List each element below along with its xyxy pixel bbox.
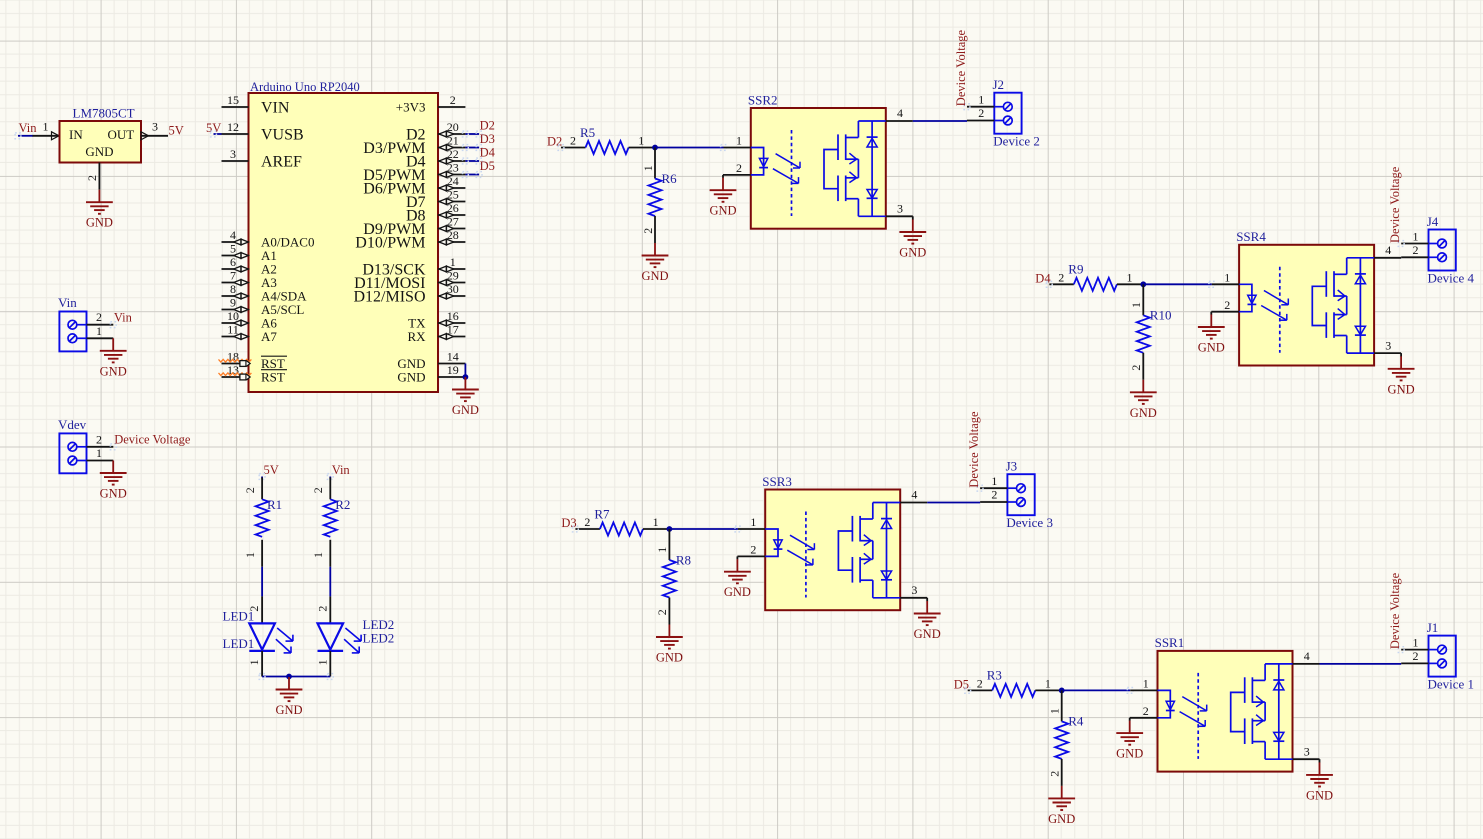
svg-text:GND: GND	[656, 651, 683, 665]
pin 2 of R1	[243, 478, 262, 500]
isolation dashed line inside SSR3	[805, 512, 807, 598]
svg-text:R6: R6	[662, 171, 678, 186]
resistor R7	[600, 523, 643, 536]
pin 4 (A0/DAC0) of U1	[222, 228, 315, 250]
pin 1 of J4	[1398, 229, 1428, 246]
ground	[1048, 786, 1075, 826]
pin 9 (A5/SCL) of U1	[222, 295, 305, 317]
svg-text:2: 2	[641, 228, 655, 234]
svg-text:2: 2	[584, 515, 590, 529]
svg-text:2: 2	[85, 175, 99, 181]
svg-text:5V: 5V	[169, 124, 184, 138]
isolation dashed line inside SSR1	[1197, 673, 1199, 759]
svg-text:4: 4	[897, 106, 903, 120]
pin 2 of J1	[1401, 649, 1428, 663]
wire	[463, 172, 483, 178]
pin 1 of R6	[641, 148, 655, 179]
pin 2 of LED2	[315, 596, 330, 623]
MOSFET pair inside SSR2	[824, 121, 886, 216]
svg-text:1: 1	[450, 255, 456, 269]
svg-text:2: 2	[977, 677, 983, 691]
pin 7 (A3) of U1	[222, 268, 277, 290]
ground	[641, 243, 668, 283]
svg-text:AREF: AREF	[261, 154, 302, 171]
svg-text:D3: D3	[561, 516, 576, 530]
pin 3 of SSR1	[1293, 744, 1320, 759]
svg-text:Vin: Vin	[114, 311, 133, 325]
svg-text:5: 5	[230, 241, 236, 255]
pin 2 of R2	[311, 478, 330, 500]
svg-text:SSR1: SSR1	[1155, 635, 1185, 650]
svg-text:R9: R9	[1068, 262, 1083, 277]
svg-text:GND: GND	[1116, 747, 1143, 761]
wire	[912, 216, 914, 219]
svg-text:J1: J1	[1427, 620, 1439, 635]
wire	[259, 474, 265, 480]
solid state relay SSR1 body	[1158, 651, 1293, 772]
pin 1 of Vdev connector	[87, 446, 114, 461]
svg-text:GND: GND	[1198, 341, 1225, 355]
pin 1 of SSR2	[724, 134, 751, 148]
svg-text:1: 1	[1129, 302, 1143, 308]
MOSFET pair inside SSR1	[1231, 664, 1293, 759]
MOSFET pair inside SSR4	[1312, 258, 1374, 353]
wire	[1046, 281, 1214, 287]
svg-text:R4: R4	[1068, 714, 1084, 729]
pin 1 of R8	[655, 529, 669, 560]
pin 1 of R9	[1117, 271, 1143, 285]
svg-text:5V: 5V	[206, 121, 221, 135]
svg-text:Device Voltage: Device Voltage	[954, 29, 968, 106]
wire	[913, 120, 967, 122]
light arrows inside SSR3	[787, 535, 814, 565]
pin 30 (D12/MISO) of U1	[353, 282, 465, 306]
svg-text:1: 1	[96, 446, 102, 460]
pin 6 (A2) of U1	[222, 255, 277, 277]
pin 2 of U2 (GND)	[85, 163, 99, 190]
svg-text:1: 1	[638, 134, 644, 148]
light arrows inside SSR4	[1261, 291, 1288, 321]
pin 1 of U2 (IN)	[33, 119, 60, 140]
wire	[1129, 718, 1131, 721]
svg-text:D2: D2	[480, 119, 495, 133]
wire	[463, 131, 483, 137]
svg-text:1: 1	[736, 134, 742, 148]
svg-text:Vin: Vin	[332, 463, 351, 477]
svg-text:D10/PWM: D10/PWM	[355, 235, 425, 252]
pin 19 (GND) of U1	[397, 363, 465, 385]
pin 29 (D11/MOSI) of U1	[354, 268, 465, 292]
svg-text:2: 2	[750, 543, 756, 557]
svg-text:12: 12	[227, 120, 239, 134]
pin 18 (RST) of U1	[219, 349, 288, 371]
connector Vin body	[59, 312, 86, 352]
wire	[1400, 353, 1402, 356]
svg-text:2: 2	[570, 134, 576, 148]
wire	[463, 145, 483, 151]
svg-text:15: 15	[227, 93, 239, 107]
svg-text:D12/MISO: D12/MISO	[353, 289, 425, 306]
svg-text:1: 1	[655, 547, 669, 553]
microcontroller U1 Arduino Uno RP2040 body	[249, 93, 439, 392]
connector J1 body	[1429, 636, 1456, 677]
pin 2 of LED1	[247, 596, 262, 623]
svg-text:4: 4	[1385, 243, 1391, 257]
svg-text:7: 7	[230, 268, 236, 282]
svg-text:D3: D3	[480, 132, 495, 146]
pin 24 (D6/PWM) of U1	[363, 174, 465, 198]
svg-text:SSR2: SSR2	[748, 92, 778, 107]
svg-text:GND: GND	[397, 370, 425, 385]
svg-text:1: 1	[311, 552, 325, 558]
svg-text:GND: GND	[100, 364, 127, 378]
svg-text:8: 8	[230, 282, 236, 296]
node junction	[1140, 281, 1146, 287]
svg-text:11: 11	[227, 322, 239, 336]
svg-text:Arduino Uno RP2040: Arduino Uno RP2040	[250, 80, 360, 94]
wire	[736, 556, 738, 559]
node GND junction	[463, 374, 469, 380]
svg-text:2: 2	[1143, 704, 1149, 718]
svg-text:1: 1	[315, 659, 329, 665]
connector J2 body	[994, 93, 1021, 134]
wire	[965, 688, 1133, 694]
pin 1 of SSR4	[1212, 271, 1239, 285]
wire	[1319, 759, 1321, 762]
pin 2 of J2	[967, 106, 994, 120]
svg-text:2: 2	[736, 161, 742, 175]
svg-text:1: 1	[1413, 229, 1419, 243]
ground	[899, 220, 926, 260]
wire	[327, 474, 333, 480]
svg-text:Device Voltage: Device Voltage	[1388, 166, 1402, 243]
svg-text:Device 3: Device 3	[1006, 515, 1053, 530]
svg-text:GND: GND	[275, 703, 302, 717]
pin 21 (D3/PWM) of U1	[363, 133, 465, 157]
pin 2 of J3	[980, 488, 1007, 502]
svg-text:1: 1	[43, 119, 49, 133]
resistor R1	[256, 499, 269, 537]
svg-text:3: 3	[897, 202, 903, 216]
svg-text:Device 4: Device 4	[1428, 271, 1475, 286]
wire	[464, 364, 466, 378]
svg-text:R3: R3	[987, 668, 1002, 683]
wire	[1320, 663, 1402, 665]
pin 1 of SSR3	[738, 515, 765, 529]
wire	[573, 526, 741, 532]
svg-text:1: 1	[641, 165, 655, 171]
ground	[452, 377, 479, 417]
svg-text:IN: IN	[69, 127, 83, 142]
pin 3 of SSR3	[900, 583, 927, 598]
svg-text:GND: GND	[452, 403, 479, 417]
svg-text:GND: GND	[899, 246, 926, 260]
svg-text:2: 2	[96, 432, 102, 446]
connector J4 body	[1429, 230, 1456, 271]
pin 2 of R6	[641, 216, 655, 243]
wire	[261, 567, 263, 597]
svg-text:R10: R10	[1150, 308, 1172, 323]
svg-text:RST: RST	[261, 370, 285, 385]
svg-text:1: 1	[991, 474, 997, 488]
pin 1 of J1	[1398, 635, 1428, 652]
svg-text:3: 3	[911, 583, 917, 597]
svg-text:R5: R5	[580, 125, 595, 140]
svg-text:Vin: Vin	[19, 121, 38, 135]
solid state relay SSR4 body	[1239, 245, 1374, 366]
svg-text:D4: D4	[1035, 272, 1051, 286]
resistor R2	[324, 499, 337, 537]
svg-text:4: 4	[911, 488, 917, 502]
svg-text:LED1: LED1	[223, 636, 255, 651]
svg-text:OUT: OUT	[108, 127, 135, 142]
svg-text:1: 1	[243, 552, 257, 558]
svg-text:4: 4	[1304, 649, 1310, 663]
resistor R9	[1074, 278, 1117, 291]
pin 8 (A4/SDA) of U1	[222, 282, 308, 304]
svg-text:2: 2	[978, 106, 984, 120]
wire	[926, 598, 928, 601]
pin 2 of R7	[575, 515, 600, 529]
pin 1 of SSR1	[1130, 677, 1157, 691]
svg-text:J2: J2	[993, 77, 1005, 92]
svg-text:D2: D2	[547, 135, 562, 149]
svg-text:Device 2: Device 2	[993, 134, 1040, 149]
pin 4 of SSR2	[886, 106, 913, 121]
pin 11 (A7) of U1	[222, 322, 278, 344]
svg-text:Device Voltage: Device Voltage	[114, 433, 191, 447]
pin 2 of SSR3	[737, 543, 765, 557]
wire	[259, 674, 333, 680]
voltage regulator U2 LM7805CT body	[60, 121, 142, 163]
wire	[329, 567, 331, 597]
pin 2 of R4	[1048, 759, 1062, 786]
svg-text:SSR4: SSR4	[1236, 229, 1266, 244]
svg-text:J4: J4	[1427, 214, 1439, 229]
opto LED inside SSR2	[751, 148, 768, 175]
svg-text:LM7805CT: LM7805CT	[73, 106, 135, 121]
pin 3 of SSR2	[886, 202, 913, 217]
svg-text:3: 3	[1385, 338, 1391, 352]
pin 15 (VIN) of U1	[222, 93, 290, 117]
node junction	[652, 145, 658, 151]
svg-text:R2: R2	[335, 497, 350, 512]
svg-text:Vin: Vin	[58, 295, 77, 310]
pin 2 of R5	[561, 134, 586, 148]
svg-text:2: 2	[1413, 649, 1419, 663]
pin 1 of J2	[964, 93, 994, 110]
svg-text:1: 1	[750, 515, 756, 529]
node junction	[1059, 688, 1065, 694]
opto LED inside SSR1	[1158, 690, 1175, 717]
svg-text:VIN: VIN	[261, 100, 290, 117]
svg-text:3: 3	[152, 119, 158, 133]
ground	[1306, 762, 1333, 802]
svg-text:RX: RX	[407, 329, 426, 344]
svg-text:3: 3	[1304, 744, 1310, 758]
svg-text:1: 1	[653, 515, 659, 529]
svg-text:1: 1	[1048, 708, 1062, 714]
pin 27 (D9/PWM) of U1	[363, 214, 465, 238]
pin 1 of R2	[311, 540, 330, 567]
svg-text:2: 2	[96, 310, 102, 324]
ground	[1130, 380, 1157, 420]
pin 1 of R3	[1035, 677, 1061, 691]
svg-text:D5: D5	[480, 159, 495, 173]
pin 2 of Vdev connector	[87, 432, 117, 449]
pin 13 (RST) of U1	[219, 363, 288, 385]
pin 4 of SSR4	[1374, 243, 1401, 258]
svg-text:2: 2	[991, 488, 997, 502]
wire	[1210, 312, 1212, 315]
svg-text:GND: GND	[724, 585, 751, 599]
pin 17 (RX) of U1	[407, 322, 465, 344]
pin 2 of R3	[968, 677, 993, 691]
svg-text:Device Voltage: Device Voltage	[967, 411, 981, 488]
pin 26 (D8) of U1	[406, 201, 465, 225]
svg-text:1: 1	[247, 659, 261, 665]
pin 4 of SSR1	[1293, 649, 1320, 664]
svg-text:5V: 5V	[264, 463, 279, 477]
pin 2 of J4	[1401, 243, 1428, 257]
ground	[86, 190, 113, 230]
svg-text:2: 2	[655, 609, 669, 615]
pin 2 of SSR1	[1130, 704, 1158, 718]
pin 1 of Vin connector	[87, 324, 114, 339]
svg-text:2: 2	[1058, 271, 1064, 285]
svg-text:6: 6	[230, 255, 236, 269]
ground	[100, 461, 127, 501]
light arrows inside SSR1	[1180, 697, 1207, 727]
pin 10 (A6) of U1	[222, 309, 278, 331]
opto LED inside SSR4	[1239, 284, 1256, 311]
resistor R6	[649, 179, 662, 217]
pin 1 of R1	[243, 540, 262, 567]
pin 3 of U2 (OUT)	[141, 119, 168, 140]
resistor R3	[992, 684, 1035, 697]
isolation dashed line inside SSR4	[1279, 267, 1281, 353]
pin 2 of SSR2	[723, 161, 751, 175]
svg-text:1: 1	[1413, 635, 1419, 649]
wire	[15, 133, 33, 139]
svg-text:4: 4	[230, 228, 236, 242]
pin 2 of R10	[1129, 353, 1143, 380]
svg-text:Vdev: Vdev	[58, 417, 87, 432]
wire	[722, 175, 724, 178]
ground	[1388, 356, 1415, 396]
pin 22 (D4) of U1	[406, 147, 465, 171]
svg-text:R7: R7	[594, 506, 610, 521]
svg-text:2: 2	[243, 487, 257, 493]
ground	[724, 559, 751, 599]
wire	[927, 502, 980, 504]
pin 2 (+3V3) of U1	[396, 93, 466, 115]
svg-text:GND: GND	[1306, 788, 1333, 802]
ground	[656, 625, 683, 665]
LED LED2 symbol	[318, 623, 362, 653]
wire	[463, 158, 483, 164]
pin 2 of SSR4	[1211, 298, 1239, 312]
svg-text:+3V3: +3V3	[396, 100, 426, 115]
svg-text:J3: J3	[1006, 459, 1018, 474]
resistor R4	[1055, 721, 1068, 759]
svg-text:2: 2	[1048, 771, 1062, 777]
wire	[1400, 257, 1402, 259]
pin 2 of Vin connector	[87, 310, 117, 327]
pin 1 of LED2	[315, 651, 330, 677]
svg-text:GND: GND	[86, 216, 113, 230]
svg-text:GND: GND	[641, 269, 668, 283]
svg-text:Device Voltage: Device Voltage	[1388, 572, 1402, 649]
svg-text:1: 1	[1143, 677, 1149, 691]
MOSFET pair inside SSR3	[838, 503, 900, 598]
node junction	[667, 526, 673, 532]
connector J3 body	[1007, 474, 1034, 515]
ground	[914, 601, 941, 641]
solid state relay SSR2 body	[751, 108, 886, 229]
svg-text:2: 2	[450, 93, 456, 107]
svg-text:1: 1	[1045, 677, 1051, 691]
isolation dashed line inside SSR2	[791, 130, 793, 216]
pin 1 of LED1	[247, 651, 262, 677]
pin 1 of J3	[977, 474, 1007, 491]
pin 12 (VUSB) of U1	[222, 120, 304, 144]
pin 5 (A1) of U1	[222, 241, 277, 263]
ground	[1116, 721, 1143, 761]
opto LED inside SSR3	[765, 529, 782, 556]
pin 16 (TX) of U1	[408, 309, 465, 331]
svg-text:14: 14	[447, 349, 459, 363]
svg-text:D4: D4	[480, 146, 496, 160]
resistor R8	[663, 560, 676, 598]
pin 20 (D2) of U1	[406, 120, 465, 144]
pin 1 of R4	[1048, 690, 1062, 721]
svg-text:2: 2	[315, 606, 329, 612]
svg-text:1: 1	[96, 324, 102, 338]
pin 28 (D10/PWM) of U1	[355, 228, 465, 252]
svg-text:1: 1	[1224, 271, 1230, 285]
svg-text:Device 1: Device 1	[1428, 677, 1475, 692]
pin 1 of R7	[643, 515, 669, 529]
ground	[709, 178, 736, 218]
svg-text:LED1: LED1	[223, 609, 255, 624]
svg-text:2: 2	[311, 487, 325, 493]
pin 1 (D13/SCK) of U1	[362, 255, 465, 279]
svg-text:GND: GND	[1130, 406, 1157, 420]
wire	[211, 131, 222, 137]
svg-text:R1: R1	[267, 497, 282, 512]
svg-text:LED2: LED2	[363, 630, 395, 645]
pin 4 of SSR3	[900, 488, 927, 503]
pin 14 (GND) of U1	[397, 349, 465, 371]
pin 1 of R10	[1129, 284, 1143, 315]
svg-text:GND: GND	[1388, 382, 1415, 396]
light arrows inside SSR2	[773, 154, 800, 184]
wire	[558, 145, 726, 151]
svg-text:19: 19	[447, 363, 459, 377]
solid state relay SSR3 body	[765, 490, 900, 611]
svg-text:2: 2	[1224, 298, 1230, 312]
svg-text:2: 2	[1413, 243, 1419, 257]
pin 2 of R9	[1049, 271, 1074, 285]
svg-text:GND: GND	[85, 144, 113, 159]
node LED GND junction	[286, 674, 292, 680]
svg-text:GND: GND	[100, 487, 127, 501]
svg-text:3: 3	[230, 147, 236, 161]
svg-text:2: 2	[1129, 365, 1143, 371]
resistor R10	[1137, 315, 1150, 353]
LED LED1 symbol	[249, 623, 293, 653]
